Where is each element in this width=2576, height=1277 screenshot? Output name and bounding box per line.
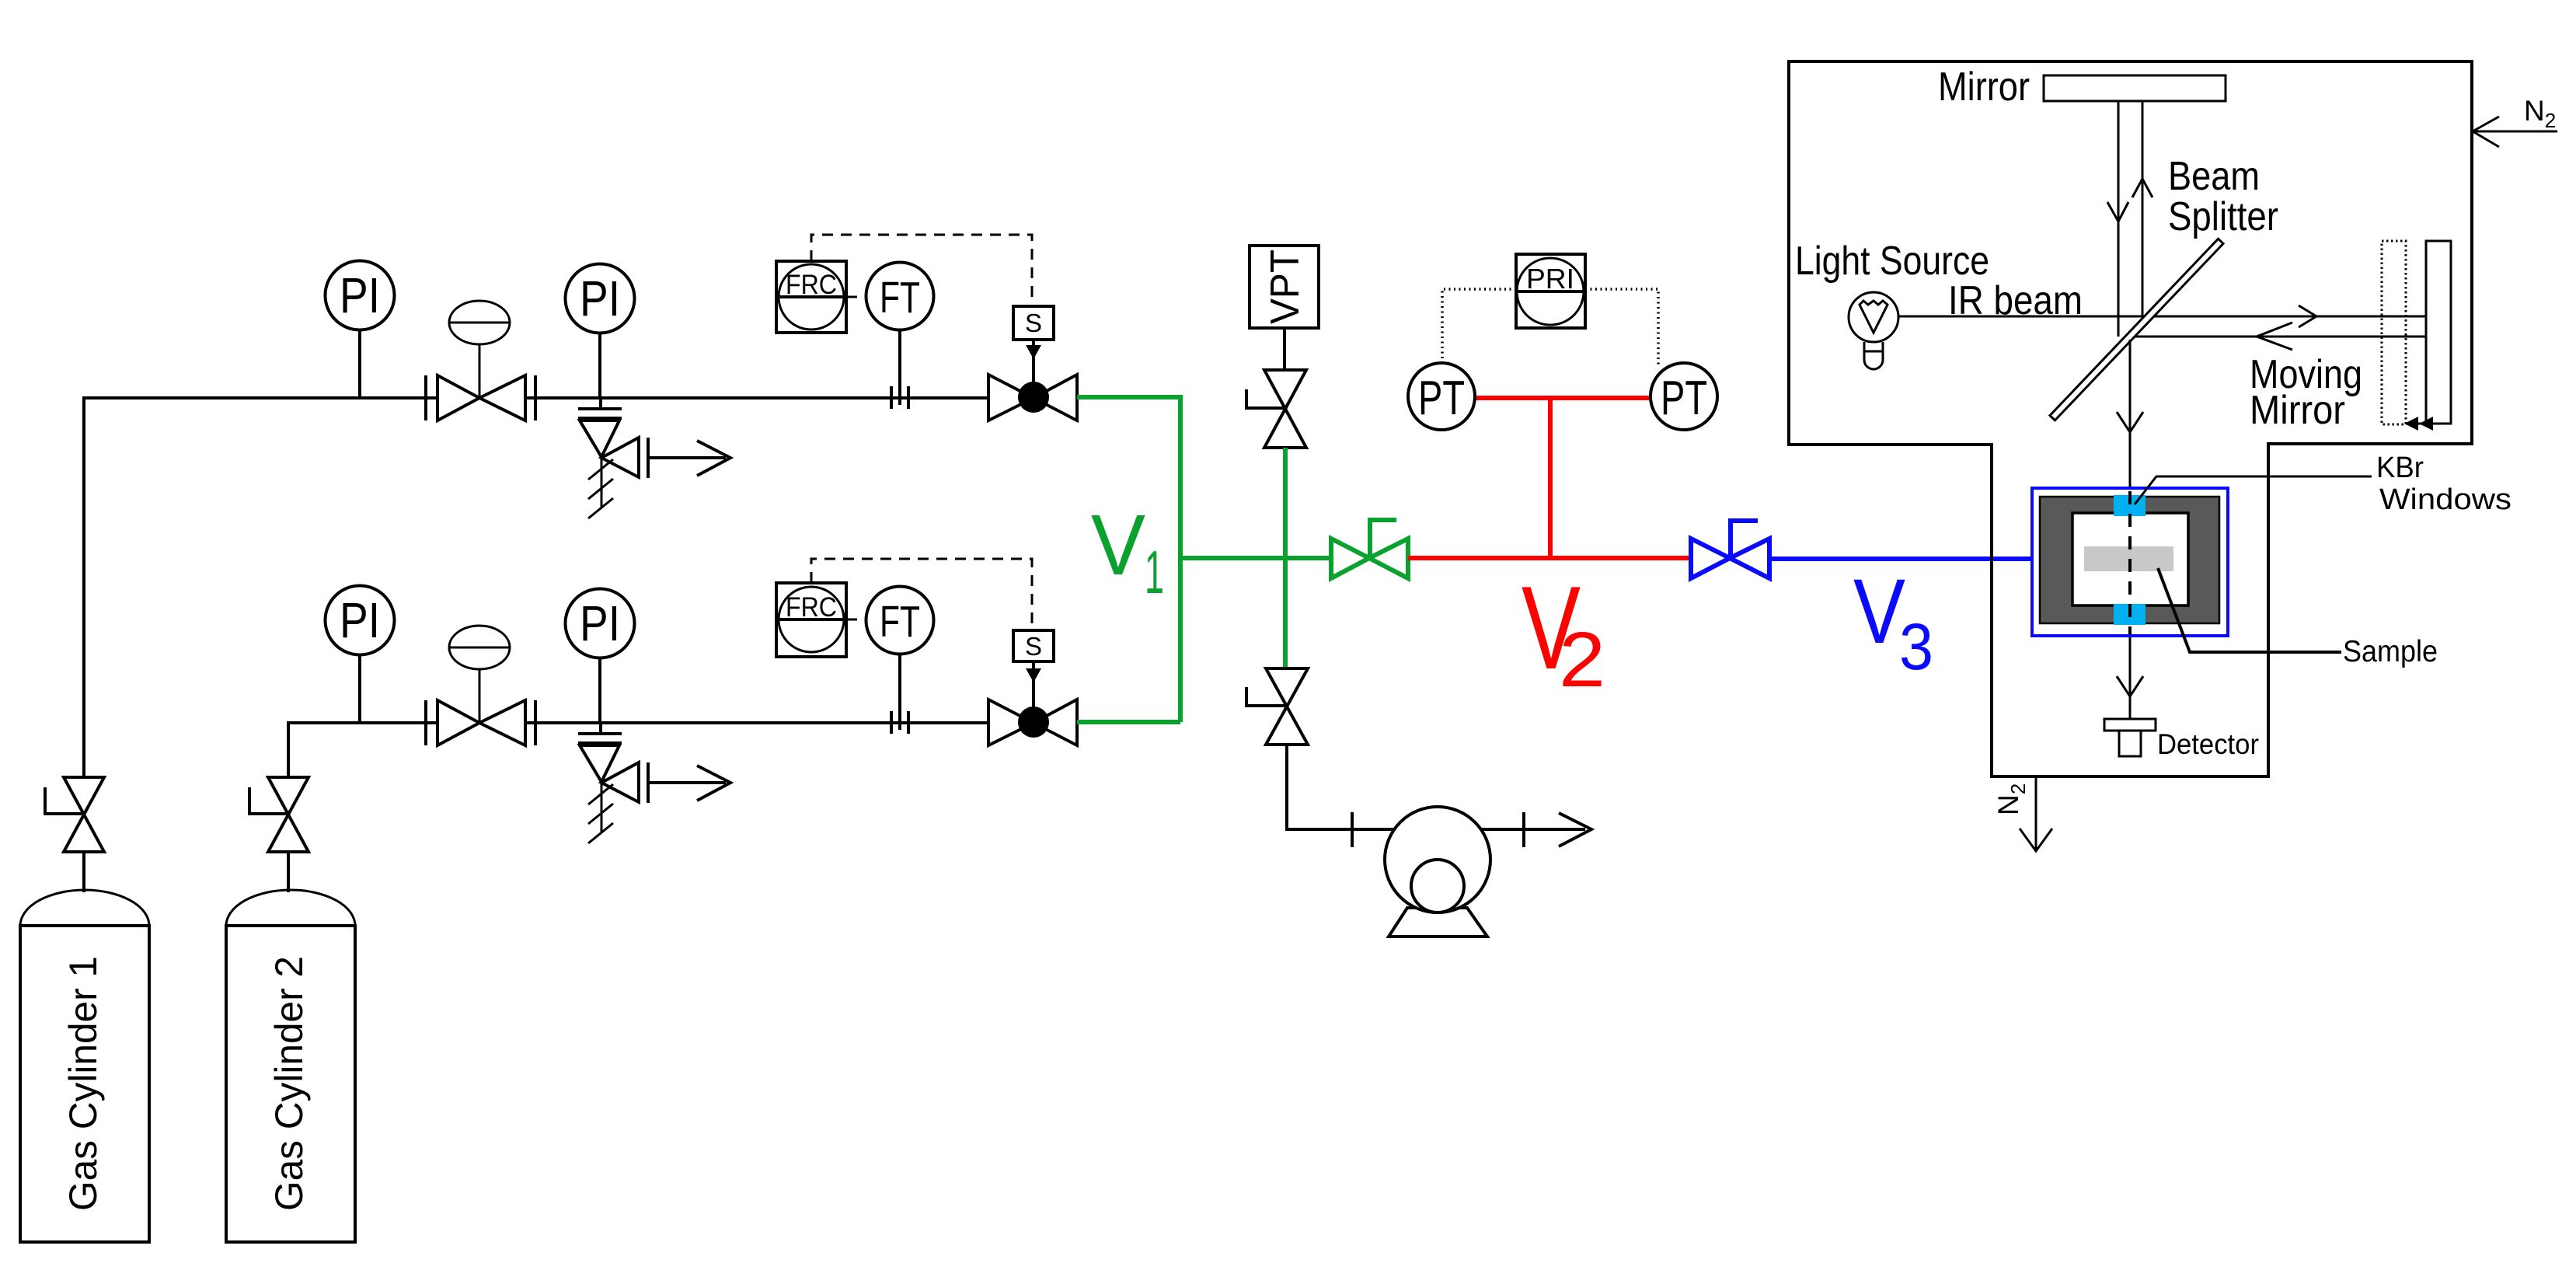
beam dashed through cell [2128,490,2132,636]
arrow up on mirror beam [2132,179,2152,197]
svg-text:PI: PI [340,267,380,323]
beam dashed overlay in cell [2128,491,2132,634]
signal dotted PRI to PT left [1442,289,1516,363]
control valve CV1 (globe valve with diaphragm actuator) [426,301,535,420]
svg-text:PI: PI [580,270,620,326]
beam splitter plate [2050,239,2223,420]
solenoid valve SV2 [988,700,1077,745]
svg-text:Beam: Beam [2168,154,2260,199]
pressure transmitter PT left [1408,363,1475,430]
solenoid actuator S2 [1013,630,1054,707]
KBr window bottom (cyan) [2114,604,2146,625]
needle valve below VPT [1246,370,1306,448]
needle valve on gas cylinder 1 [45,777,104,852]
svg-text:Sample: Sample [2343,635,2438,668]
wire green VPT branch vertical [1283,448,1288,668]
beam to detector [2129,636,2132,719]
signal dashed FRC1 to S1 [811,235,1032,306]
svg-text:VPT: VPT [1263,249,1308,324]
signal dashed FRC1 to FT1 [846,296,866,298]
wire red PT interconnect [1474,396,1651,400]
beam down to sample cell [2129,340,2132,490]
FTIR enclosure outline [1789,61,2472,776]
pressure indicator PI2 [566,264,635,399]
svg-text:FRC: FRC [786,592,837,623]
solenoid valve SV1 [988,375,1077,420]
svg-text:Mirror: Mirror [1938,65,2030,110]
valve V2 (blue) [1691,521,1769,578]
arrow down to detector [2117,676,2143,696]
orifice taps at FT1 [890,386,893,409]
VPT transducer box [1250,246,1319,370]
svg-text:S: S [1025,632,1042,661]
wire green outlet SV2 [1077,720,1180,724]
signal dotted PRI to PT right [1585,289,1658,365]
pressure indicator PI4 [566,589,635,724]
svg-text:PT: PT [1661,372,1707,425]
wire red main line [1408,556,1691,560]
arrow right on IR beam [2299,305,2316,327]
pump inlet flange tick [1351,812,1354,847]
svg-text:1: 1 [1145,538,1164,606]
svg-text:Mirror: Mirror [2250,388,2345,433]
svg-text:2: 2 [1559,616,1605,703]
svg-text:S: S [1025,309,1042,337]
wire top pipeline mid segment [525,396,988,399]
moving mirror plate [2426,241,2451,424]
svg-text:V: V [1091,497,1145,593]
beam line mirror-up [2142,101,2144,316]
flow transmitter FT2 [866,587,934,731]
svg-text:FRC: FRC [786,270,837,300]
pump vent arrow [1559,813,1591,846]
svg-text:FT: FT [880,597,920,647]
wire to pump [1287,745,1585,829]
sample bar [2084,546,2173,571]
svg-text:Light Source: Light Source [1795,239,1989,284]
KBr pointer line [2135,476,2372,504]
vacuum pump [1385,807,1490,937]
needle valve to vacuum pump [1246,668,1308,745]
valve V1 (green) [1331,520,1408,578]
control valve CV2 (globe valve with diaphragm actuator) [426,626,535,745]
svg-text:PRI: PRI [1526,263,1574,295]
needle valve on gas cylinder 2 [249,777,308,852]
pump outlet flange tick [1522,812,1525,847]
svg-text:PI: PI [580,595,620,651]
solenoid actuator S1 [1013,306,1054,382]
signal dashed FRC2 to FT2 [846,619,866,621]
pressure indicator PI3 [326,586,395,724]
svg-text:Windows: Windows [2379,483,2512,516]
arrow down on mirror beam [2107,202,2128,222]
cell body dark mass [2040,497,2219,623]
svg-text:KBr: KBr [2376,452,2424,484]
light source bulb [1849,292,1898,369]
fixed mirror [2044,75,2226,101]
gas cylinder 2 [226,852,355,1242]
N2 purge outlet bottom [1992,776,2052,851]
svg-text:3: 3 [1899,610,1933,683]
svg-text:Detector: Detector [2157,728,2259,760]
signal dashed FRC2 to S2 [811,559,1032,630]
flow controller FRC1 [776,261,846,333]
N2 inlet arrow [2473,117,2557,147]
relief valve PSV2 with vent arrow [578,723,730,843]
orifice taps at FT2 [890,711,893,734]
gas cylinder 1 [20,852,149,1242]
svg-text:PI: PI [340,592,380,648]
pressure indicator PI1 [326,261,395,399]
node V1 manifold: green main line [1180,556,1331,560]
pressure recorder PRI [1516,254,1585,328]
svg-text:PT: PT [1418,372,1465,425]
svg-text:FT: FT [880,273,920,323]
pressure transmitter PT right [1651,363,1717,430]
beam line mirror-down [2118,101,2120,337]
svg-text:Gas Cylinder 2: Gas Cylinder 2 [267,956,311,1211]
beam line source to moving mirror [1898,316,2426,318]
flow controller FRC2 [776,583,846,657]
moving mirror travel arrow [2404,417,2433,431]
arrow down to cell [2117,412,2143,432]
wire bottom header from gas cylinder 2 riser [288,723,437,779]
svg-text:V: V [1853,560,1905,663]
svg-text:Gas Cylinder 1: Gas Cylinder 1 [61,956,105,1211]
relief valve PSV1 with vent arrow [578,398,730,518]
wire red vertical to main line [1548,398,1553,558]
beam return line [2135,336,2426,338]
wire bottom pipeline mid segment [525,721,988,724]
arrow left on return beam [2257,323,2292,350]
KBr window top (cyan) [2114,495,2146,516]
flow transmitter FT1 [866,263,934,406]
svg-text:Splitter: Splitter [2168,194,2278,239]
sample cell outer (blue) [2032,488,2228,636]
sample pointer line [2158,568,2341,652]
moving mirror ghost (dotted) [2382,241,2406,424]
wire top header from gas cylinder 1 riser [84,398,437,779]
detector symbol [2104,719,2156,756]
wire green outlet SV1 [1077,397,1180,722]
wire blue line to cell [1769,557,2032,561]
